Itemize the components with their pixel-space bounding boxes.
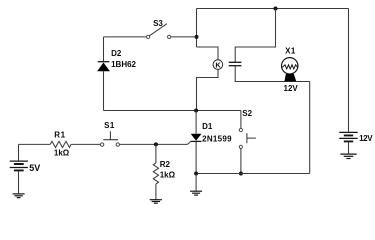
wire R1 to S1 [71,143,100,145]
battery V1 5V [10,161,28,170]
wire SCR anode [195,111,197,134]
wire D2 cathode up to S3 corner [103,37,105,61]
svg-text:D1: D1 [202,122,213,131]
wire bus down to S2 [240,111,242,129]
svg-text:1kΩ: 1kΩ [54,149,70,158]
svg-text:12V: 12V [359,134,373,143]
wire R2 to ground [155,184,157,199]
svg-text:S3: S3 [153,19,163,28]
svg-text:X1: X1 [285,47,296,56]
ground under D1 [190,191,202,195]
wire 5V battery top corner [19,144,51,160]
svg-text:K: K [215,60,221,69]
wire lamp right side down to bottom net [309,82,311,174]
wire bottom net [196,173,310,175]
resistor R2 [153,163,158,184]
wire S1 to SCR gate [120,143,188,145]
wire capacitor bottom to lamp net [235,66,310,82]
resistor R1 [50,141,71,147]
svg-text:D2: D2 [111,49,122,58]
capacitor (relay contact) [229,62,242,65]
wire S3 to junction [171,36,197,38]
node junction S2 on bottom net [239,172,243,176]
svg-text:S2: S2 [242,109,252,118]
SCR D1 [188,134,202,145]
wire stem to ground under D1 [195,174,197,191]
wire jog from junction to relay coil [197,47,219,60]
wire SCR cathode down [195,142,197,174]
ground under V2 [340,154,356,158]
switch S2 [239,128,256,148]
switch S3 [147,24,171,39]
wire D2 anode down [103,71,105,110]
svg-text:S1: S1 [104,121,115,130]
svg-text:1BH62: 1BH62 [111,60,136,69]
wire right edge down to battery V2 [348,9,350,132]
wire top net [197,8,349,10]
wire coil bottom jog down to gate bus [197,69,219,110]
wire S2 bottom down to bottom net [240,149,242,174]
svg-text:R1: R1 [54,131,65,140]
node junction S3 wire into coil branch [195,35,199,39]
wire left vertical of top net [196,9,198,48]
ground under R2 [150,200,162,204]
svg-text:R2: R2 [160,160,171,169]
wire battery V1 to ground [18,171,20,193]
node junction R2 tap [154,142,158,146]
wire battery V2 to ground [348,142,350,153]
wire gate bus [104,110,241,112]
node junction top wire to lamp branch [274,7,278,11]
svg-text:2N1599: 2N1599 [202,134,232,143]
battery V2 12V [339,132,357,141]
svg-text:12V: 12V [284,84,299,93]
svg-text:5V: 5V [29,163,40,173]
svg-text:1kΩ: 1kΩ [160,171,176,180]
relay coil K [213,60,223,70]
node junction SCR anode on bus [194,109,198,113]
ground under V1 [13,194,25,198]
wire D2 corner to S3 [104,36,147,38]
lamp X1 [282,58,298,82]
wire junction down to R2 [155,144,157,163]
switch S1 [100,131,119,146]
wire node A down to capacitor branch [235,9,275,63]
diode D2 [97,62,110,72]
node junction cathode ground bottom net [194,172,198,176]
